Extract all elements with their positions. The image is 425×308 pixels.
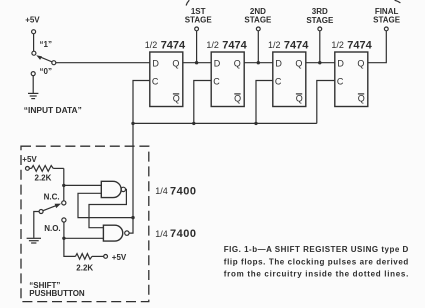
junction clock bus / U1 C / clock source <box>131 122 134 125</box>
flip-flop U4 1/2 7474 (final stage) <box>331 39 372 106</box>
wire U4 C to clock bus (bus right end) <box>317 81 335 124</box>
svg-text:Q: Q <box>172 58 179 68</box>
wire N.O. contact to node <box>63 222 65 238</box>
flip-flop U2 1/2 7474 (2nd stage) <box>206 39 247 106</box>
label 1/4 7400 (G1) <box>155 185 196 197</box>
svg-text:1/2: 1/2 <box>268 40 281 50</box>
svg-text:2.2K: 2.2K <box>76 263 93 272</box>
wire U4 Q to final stage terminal <box>368 31 387 63</box>
flip-flop U1 1/2 7474 (1st stage) <box>145 39 186 106</box>
wire R1 node down to N.C. contact <box>63 168 65 200</box>
wire contact 0 to ground <box>32 76 34 94</box>
svg-text:+5V: +5V <box>22 155 37 164</box>
junction clock bus / U3 C <box>254 122 257 125</box>
svg-text:“0”: “0” <box>40 67 52 76</box>
svg-text:flip flops. The clocking pulse: flip flops. The clocking pulses are deri… <box>224 257 409 266</box>
svg-text:+5V: +5V <box>25 16 40 25</box>
switch S1 arm with arrow <box>36 55 52 62</box>
wire to 3rd stage terminal <box>319 31 321 63</box>
ground (pushbutton) <box>27 238 41 243</box>
wire N.O. node to gate G2 input 2 <box>64 237 104 239</box>
svg-text:Q: Q <box>234 94 241 104</box>
svg-text:FIG. 1-b—A SHIFT REGISTER USIN: FIG. 1-b—A SHIFT REGISTER USING type D <box>224 245 409 254</box>
label "SHIFT" PUSHBUTTON <box>29 281 85 298</box>
dashed enclosure (pushbutton circuit) <box>21 146 149 301</box>
svg-text:“1”: “1” <box>40 40 52 49</box>
svg-text:D: D <box>214 58 221 68</box>
svg-text:7474: 7474 <box>222 39 247 51</box>
svg-text:7400: 7400 <box>170 228 196 240</box>
svg-text:1/4: 1/4 <box>155 186 168 196</box>
svg-text:STAGE: STAGE <box>306 16 334 25</box>
wire U2 Q to U3 D <box>244 62 273 64</box>
terminal +5V bottom resistor <box>104 255 108 259</box>
svg-text:7400: 7400 <box>170 185 196 197</box>
resistor R1 2.2K <box>29 166 64 172</box>
contact N.C. <box>62 201 66 205</box>
ground (input data) <box>28 93 38 98</box>
terminal 3rd stage <box>318 27 322 31</box>
wire N.C. node to gate G1 input 1 <box>64 184 102 186</box>
svg-text:Q: Q <box>357 58 364 68</box>
svg-text:Q: Q <box>295 58 302 68</box>
terminal 1st stage <box>195 27 199 31</box>
terminal +5V input <box>32 30 36 34</box>
nand gate G2 1/4 7400 <box>103 225 129 241</box>
contact "0" <box>31 72 35 76</box>
terminal 2nd stage <box>256 27 260 31</box>
contact "1" <box>32 51 36 55</box>
junction clock bus / U2 C <box>192 122 195 125</box>
wire clock source (latch output up to bus) <box>132 123 134 217</box>
svg-text:D: D <box>152 58 159 68</box>
wire G1 input 2 from G2 output node <box>78 193 133 217</box>
wire U3 Q to U4 D <box>306 62 335 64</box>
svg-text:+5V: +5V <box>112 253 127 262</box>
wire G2 output to feedback node <box>129 218 133 234</box>
contact N.O. <box>62 218 66 222</box>
terminal final stage <box>384 27 388 31</box>
wire switch pole to U1 pin D <box>56 62 150 64</box>
svg-text:1/2: 1/2 <box>206 40 219 50</box>
svg-text:7474: 7474 <box>161 39 186 51</box>
svg-text:D: D <box>337 58 344 68</box>
wire U2 C to clock bus <box>194 81 211 124</box>
crop mark left (cropped figure reference above) <box>186 0 189 5</box>
flip-flop U3 1/2 7474 (3rd stage) <box>268 39 309 106</box>
junction 2nd stage <box>257 61 260 64</box>
wire G1 output to G2 input 1 <box>89 189 126 227</box>
svg-text:STAGE: STAGE <box>244 16 272 25</box>
crop mark right <box>395 0 401 3</box>
pushbutton arm with arrow <box>43 204 61 211</box>
junction latch feedback node <box>131 216 134 219</box>
svg-text:1/2: 1/2 <box>145 40 158 50</box>
wire U3 C to clock bus <box>256 81 273 124</box>
pushbutton pole <box>39 210 43 214</box>
svg-text:1/2: 1/2 <box>331 40 344 50</box>
svg-text:Q: Q <box>296 94 303 104</box>
svg-text:C: C <box>213 77 220 87</box>
svg-text:N.O.: N.O. <box>44 224 60 233</box>
wire +5V to contact 1 <box>33 34 35 51</box>
junction N.C. node <box>62 184 65 187</box>
caption FIG. 1-b <box>224 245 409 279</box>
svg-text:3RD: 3RD <box>312 7 328 16</box>
svg-text:Q: Q <box>234 58 241 68</box>
wire pole to ground <box>34 212 39 238</box>
wire to 2nd stage terminal <box>257 31 259 63</box>
svg-text:7474: 7474 <box>347 39 372 51</box>
wire N.O. node down to R2 <box>64 238 76 256</box>
svg-text:1/4: 1/4 <box>155 229 168 239</box>
svg-text:PUSHBUTTON: PUSHBUTTON <box>29 289 85 298</box>
junction N.O. node <box>62 237 65 240</box>
svg-text:D: D <box>275 58 282 68</box>
svg-text:from the circuitry inside the: from the circuitry inside the dotted lin… <box>224 270 408 279</box>
svg-text:N.C.: N.C. <box>44 192 60 201</box>
label 1/4 7400 (G2) <box>155 228 196 240</box>
wire U1 Q to U2 D <box>183 62 211 64</box>
svg-text:C: C <box>337 77 344 87</box>
svg-text:7474: 7474 <box>284 39 309 51</box>
svg-text:STAGE: STAGE <box>373 15 401 24</box>
svg-text:Q: Q <box>358 94 365 104</box>
junction 3rd stage <box>318 61 321 64</box>
svg-text:C: C <box>152 77 159 87</box>
svg-text:STAGE: STAGE <box>185 16 213 25</box>
svg-text:“INPUT DATA”: “INPUT DATA” <box>24 106 82 115</box>
wire U1 C to clock bus <box>133 81 150 124</box>
svg-text:Q: Q <box>173 94 180 104</box>
wire to 1st stage terminal <box>196 31 198 63</box>
clock bus wire <box>133 122 317 124</box>
nand gate G1 1/4 7400 <box>101 181 125 197</box>
junction 1st stage <box>195 61 198 64</box>
svg-text:2.2K: 2.2K <box>35 174 52 183</box>
svg-text:C: C <box>275 77 282 87</box>
switch S1 pole <box>52 61 56 65</box>
terminal +5V top resistor <box>26 167 30 171</box>
resistor R2 2.2K <box>75 254 103 260</box>
